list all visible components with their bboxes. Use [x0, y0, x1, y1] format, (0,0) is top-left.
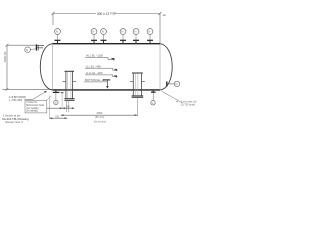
top nozzle N1	[55, 29, 61, 44]
level mark bottom	[84, 78, 107, 82]
svg-text:LLL EL ~450: LLL EL ~450	[86, 64, 102, 68]
top nozzle N4	[120, 29, 126, 44]
svg-text:(Design Note 7): (Design Note 7)	[5, 120, 23, 124]
svg-text:N: N	[102, 30, 104, 34]
svg-text:2000: 2000	[97, 111, 103, 115]
svg-text:N: N	[149, 30, 151, 34]
leader to bottom right note	[162, 91, 183, 103]
bottom nozzle right	[151, 90, 156, 105]
svg-text:M24 Anchor bolts: M24 Anchor bolts	[26, 104, 45, 107]
right head nozzle	[167, 81, 180, 86]
svg-text:N: N	[56, 30, 58, 34]
note leader to shell bottom	[25, 91, 47, 100]
svg-text:N: N	[26, 48, 28, 52]
svg-text:750: 750	[55, 115, 60, 118]
level mark LLLL	[85, 71, 117, 78]
svg-text:(BC dist): (BC dist)	[95, 116, 105, 119]
top nozzle N5	[133, 29, 139, 44]
dimension line saddle width	[44, 107, 74, 110]
boxed note anchor bolts	[25, 96, 52, 113]
internal dip pipe	[103, 80, 110, 89]
bottom manway nozzle right with internal standpipe	[130, 73, 145, 98]
svg-text:(2) 750 (mbs): (2) 750 (mbs)	[181, 103, 196, 106]
svg-text:(on liability): (on liability)	[26, 110, 38, 113]
svg-text:N: N	[93, 30, 95, 34]
top nozzle N6	[147, 29, 153, 44]
svg-text:HLL EL ~1150: HLL EL ~1150	[86, 54, 103, 58]
top nozzle N3	[101, 29, 107, 44]
svg-text:M: M	[55, 103, 57, 105]
bottom nozzle left	[49, 90, 63, 118]
top dimension line	[52, 12, 162, 44]
support extension lines	[67, 98, 138, 116]
left head	[40, 44, 52, 90]
svg-text:2 holes for: 2 holes for	[26, 101, 37, 104]
svg-text:1A: 1A	[163, 13, 167, 17]
extension line left	[48, 96, 50, 119]
left head nozzle	[25, 44, 44, 52]
svg-text:300 x 12 TYP: 300 x 12 TYP	[97, 12, 116, 16]
drain stub	[61, 92, 64, 94]
bottom manway nozzle left with internal standpipe	[62, 71, 76, 100]
level mark HLL	[85, 54, 115, 61]
svg-text:(for anchor): (for anchor)	[94, 120, 107, 123]
level mark LLL	[85, 64, 117, 71]
svg-text:LLLL EL ~300: LLLL EL ~300	[86, 71, 103, 75]
top nozzle N2	[91, 29, 97, 44]
left vertical dimension line	[2, 44, 52, 91]
left tangent line	[52, 44, 54, 90]
dimension line support spacing	[61, 111, 138, 123]
svg-text:(per saddle): (per saddle)	[26, 107, 38, 110]
svg-text:1 ~750 (350): 1 ~750 (350)	[9, 99, 23, 102]
svg-text:BOTTOM EL ~0: BOTTOM EL ~0	[85, 78, 105, 82]
vessel shell top line	[53, 43, 161, 45]
svg-text:N: N	[122, 30, 124, 34]
vessel shell bottom line	[53, 89, 161, 91]
svg-text:N: N	[135, 30, 137, 34]
svg-text:1600 ID: 1600 ID	[3, 51, 7, 63]
dimension line left chain	[49, 115, 67, 119]
svg-text:N: N	[176, 82, 178, 86]
right head	[160, 44, 172, 90]
right tangent line	[159, 44, 161, 90]
